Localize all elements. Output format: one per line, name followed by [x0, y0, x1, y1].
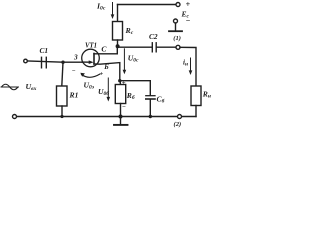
terminal bottom left [13, 115, 17, 119]
svg-text:−: − [72, 68, 76, 75]
wire Rc top [117, 5, 119, 22]
wire input [27, 61, 82, 62]
resistor Rc [113, 22, 123, 41]
svg-text:+: + [186, 0, 191, 9]
capacitor C1 [41, 57, 43, 68]
wire Cb branch [120, 81, 151, 96]
capacitor C2 [151, 43, 153, 52]
terminal input [24, 59, 28, 63]
wire Rn bottom [195, 106, 197, 117]
terminal +Ec [176, 3, 180, 7]
ground (bottom middle) [119, 115, 123, 119]
arrowhead U0e arc [80, 73, 85, 77]
resistor Rb [115, 85, 125, 104]
svg-text:3: 3 [73, 53, 78, 62]
annotation arrow U0b [107, 78, 109, 98]
svg-text:C2: C2 [149, 32, 158, 41]
terminal (1) [176, 45, 180, 49]
wire top rail [118, 4, 177, 6]
wire Cb bottom [149, 99, 151, 116]
resistor Rn [191, 86, 201, 106]
arrowhead U0c [123, 70, 127, 75]
terminal -Ec [174, 19, 178, 23]
arrowhead U0b [107, 97, 111, 102]
wire collector [94, 46, 117, 54]
svg-text:C1: C1 [40, 46, 49, 55]
svg-text:VT1: VT1 [85, 42, 97, 49]
arrowhead emitter (inside VT1) [89, 60, 94, 64]
sine source symbol [1, 84, 20, 90]
svg-text:−: − [122, 104, 126, 111]
arrowhead in [189, 70, 193, 75]
capacitor Cb [146, 95, 155, 97]
resistor R1 [57, 86, 68, 106]
wire R1 bottom [61, 106, 63, 117]
wire base down [94, 63, 120, 81]
node collector dot [116, 44, 120, 48]
wire output to Rn [180, 47, 196, 86]
svg-text:(2): (2) [174, 121, 182, 128]
node base dot [118, 79, 121, 82]
wire R1 riser [62, 62, 63, 86]
node Cb rail dot [149, 115, 152, 118]
svg-text:(1): (1) [173, 35, 181, 42]
wire collector node to C2 [118, 46, 153, 48]
wire bottom rail [17, 116, 197, 118]
wire C2 to output terminal [156, 46, 176, 48]
svg-text:+: + [122, 80, 126, 87]
transistor VT1 base bar [93, 54, 95, 65]
annotation arrow in (load current) [190, 58, 192, 72]
annotation arrow U0c [123, 49, 125, 71]
svg-text:R1: R1 [69, 91, 79, 100]
ground (top right) [175, 23, 177, 31]
wire Rb bottom [120, 104, 122, 117]
svg-text:Б: Б [103, 63, 109, 71]
transistor VT1 body [82, 49, 100, 67]
node input dot [61, 61, 64, 64]
svg-text:−: − [186, 16, 191, 25]
arrowhead I0c [111, 14, 115, 19]
annotation arrow I0c [112, 3, 114, 16]
transistor VT1 emitter lead [82, 61, 89, 63]
node R1 rail dot [60, 115, 63, 118]
terminal (2) [178, 115, 182, 119]
svg-text:+: + [100, 71, 104, 78]
wire Rb top [119, 81, 121, 85]
annotation arc U0e [82, 74, 101, 77]
wire Rc bottom [117, 40, 119, 46]
